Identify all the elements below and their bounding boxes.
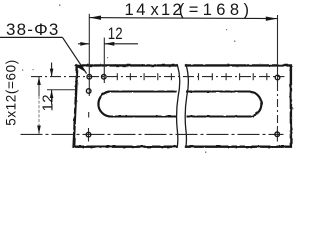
hole bottom-left [86,132,91,137]
small 12 left arrow [80,42,89,46]
hole top-right [275,75,280,80]
break line right [185,64,188,148]
svg-text:14x12(=168): 14x12(=168) [125,1,254,19]
svg-text:5x12(=60): 5x12(=60) [3,59,18,126]
38-phi3 underline [0,36,63,38]
38-phi3 leader arrow [78,65,85,71]
bottom row center line [21,133,284,135]
top dim left arrow [90,16,102,20]
hole r2c1 [86,89,91,94]
5x12(=60) dimension line [38,77,40,134]
small 12 dimension (top) [78,43,138,45]
left 12 dimension [51,63,53,105]
hole r1c1 [87,74,92,79]
svg-text:38-Φ3: 38-Φ3 [6,20,60,39]
scan specks [22,5,293,153]
row1 center line [31,76,285,78]
slot (stadium cutout) [98,91,261,116]
row2 extension line [47,89,76,91]
svg-text:12: 12 [40,94,57,111]
top dim right arrow [266,17,278,21]
small 12 right arrow [104,42,114,46]
hole bottom-right [275,132,280,137]
5x12 bottom arrow [37,126,41,134]
plate outline [74,65,291,146]
38-phi3 leader [63,37,87,73]
right column center/extension line [276,15,278,142]
left 12 bottom arrow (up) [50,90,54,98]
5x12 top arrow [37,77,41,85]
left 12 top arrow (down) [50,69,54,77]
svg-text:12: 12 [108,25,123,44]
hole r1c2 [102,74,107,79]
break line left [177,64,180,148]
row1 tick marks [117,73,266,80]
top dimension line 14x12 [89,18,277,19]
col2 center/extension line [103,38,105,84]
col1 center/extension line [88,14,91,142]
